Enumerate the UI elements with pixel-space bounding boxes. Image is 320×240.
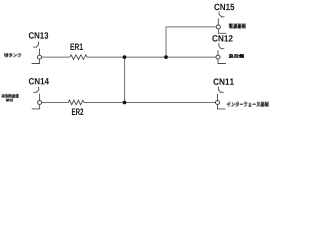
connector CN13: [32, 42, 42, 64]
label CN13: [29, 32, 48, 38]
node junction bottom wire / middle vertical: [123, 101, 127, 105]
wire bottom horizontal (CN14 to CN11, interrupted by ER2): [42, 102, 216, 104]
label ER2: [72, 108, 83, 115]
node junction top wire / CN15 branch: [164, 55, 168, 59]
node junction top wire / middle vertical: [123, 55, 127, 59]
resistor ER1: [70, 55, 87, 60]
label body frame metal line 2: [6, 99, 13, 102]
label CN11: [213, 78, 233, 84]
wire branch up to CN15: [166, 27, 216, 57]
label body frame metal line 1: [2, 94, 19, 98]
label CN14: [29, 78, 49, 84]
label CN15: [214, 4, 234, 10]
label ER1: [70, 44, 82, 51]
connector CN14: [32, 87, 42, 109]
label ball tank (JP text drawn as pixel runs): [4, 53, 21, 57]
connector CN12: [216, 43, 226, 63]
resistor ER2: [68, 100, 84, 105]
label island equipment: [229, 54, 244, 58]
wire top horizontal (CN13 to CN12, interrupted by ER1): [42, 56, 217, 58]
label CN12: [212, 35, 232, 41]
label interface board: [227, 102, 269, 107]
connector CN11: [216, 87, 226, 109]
label power supply board: [229, 24, 246, 29]
wire middle vertical (top wire to bottom wire): [124, 57, 126, 102]
connector CN15: [216, 11, 226, 33]
